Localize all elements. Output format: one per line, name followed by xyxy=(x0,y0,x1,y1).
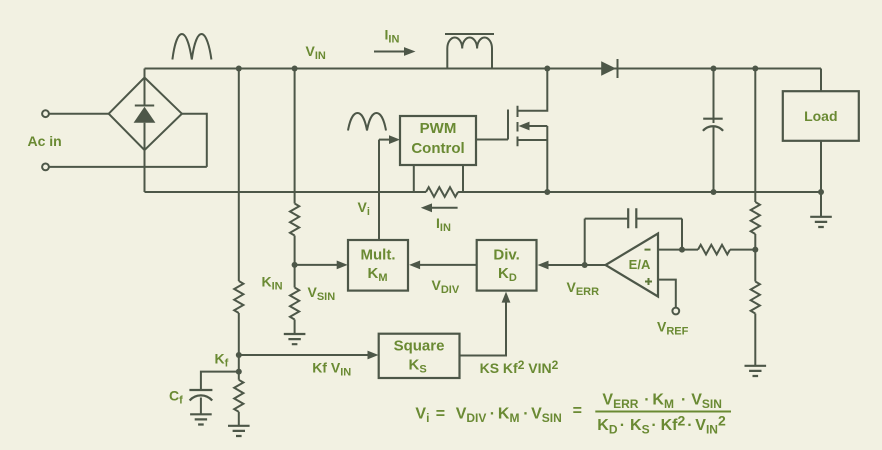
MOSFET channel segments xyxy=(517,106,519,146)
MOSFET gate bar xyxy=(507,110,509,140)
arrow KfVIN into Square xyxy=(368,351,379,360)
output capacitor lead top xyxy=(713,69,715,124)
junction dot divider tap xyxy=(752,247,758,253)
wire Kf divider upper xyxy=(238,69,240,282)
svg-text:·: · xyxy=(681,391,686,408)
wire bottom return rail right segment xyxy=(458,191,821,193)
svg-text:=: = xyxy=(573,403,582,420)
arrow VERR into Div box xyxy=(538,261,549,270)
output capacitor lead bottom xyxy=(713,127,715,192)
resistor input to divider tap xyxy=(698,245,730,255)
wire feedback right horizontal xyxy=(636,218,682,220)
wire VSIN to Mult xyxy=(295,264,337,266)
wire bridge diode anode lead xyxy=(144,123,146,149)
junction dot VSIN tap xyxy=(292,262,298,268)
boost inductor L coil xyxy=(447,37,492,48)
bridge diode triangle xyxy=(134,107,156,123)
junction dot Cf branch xyxy=(236,369,242,375)
terminal AC top xyxy=(42,110,49,117)
svg-text:·: · xyxy=(523,406,528,423)
sine symbol at PWM xyxy=(348,113,386,131)
capacitor Cf ground stub xyxy=(200,398,202,415)
Mult KM box xyxy=(348,240,408,291)
resistor KIN lower xyxy=(290,288,299,320)
junction dot rail / MOSFET drain xyxy=(544,66,550,72)
PWM Control box xyxy=(400,116,476,165)
feedback capacitor plates xyxy=(628,208,636,228)
wire feedback left horizontal xyxy=(585,218,629,220)
wire output ground stub xyxy=(820,192,822,216)
wire ac bottom lead xyxy=(49,166,207,168)
wire bridge top vertex to top rail xyxy=(144,69,146,79)
ground output xyxy=(810,217,832,227)
wire resistor to divider tap xyxy=(730,249,755,251)
terminal AC bottom xyxy=(42,164,49,171)
svg-text:Mult.: Mult. xyxy=(361,247,396,264)
Load box xyxy=(783,91,859,141)
svg-text:PWM: PWM xyxy=(420,120,457,137)
current sense resistor xyxy=(426,187,458,197)
wire MOSFET source to bottom rail xyxy=(546,126,548,192)
wire Kf to Square xyxy=(239,354,369,356)
wire top rail VIN xyxy=(145,68,822,70)
wire Square output to Div input xyxy=(460,302,507,356)
resistor feedback divider upper xyxy=(751,202,760,234)
wire Vi vertical xyxy=(378,140,380,240)
boost inductor L leads xyxy=(447,49,492,69)
wire bridge right vertex to ac return xyxy=(182,114,207,167)
arrow Vi into PWM xyxy=(379,139,390,141)
wire divider lower to ground xyxy=(754,314,756,366)
junction dot cap / bottom rail xyxy=(711,189,717,195)
output capacitor top plate xyxy=(703,118,723,120)
wire bridge bottom vertex to bottom rail xyxy=(144,150,146,193)
wire KIN lower to ground xyxy=(294,320,296,334)
output capacitor curved plate xyxy=(703,126,723,131)
resistor Kf upper xyxy=(234,281,243,313)
svg-text:Control: Control xyxy=(411,140,464,157)
wire bottom return rail left segment xyxy=(145,191,427,193)
wire load bottom lead xyxy=(820,141,822,192)
op-amp E/A triangle xyxy=(606,234,659,297)
svg-text:·: · xyxy=(687,417,692,434)
svg-text:Load: Load xyxy=(804,108,837,124)
wire KIN tap xyxy=(294,236,296,288)
formula fraction bar xyxy=(595,411,731,413)
ground Kf divider xyxy=(228,426,250,436)
MOSFET gate lead xyxy=(476,139,508,141)
boost diode cathode bar xyxy=(617,59,619,78)
wire divider to tap xyxy=(754,234,756,282)
wire op-amp noninverting input xyxy=(658,280,676,308)
wire feedback right vertical xyxy=(681,219,683,250)
wire KIN divider upper xyxy=(294,69,296,204)
bridge rectifier diamond xyxy=(109,78,182,151)
junction dot load / bottom rail xyxy=(818,189,824,195)
PWM sense stub left xyxy=(413,165,415,192)
wire feedback divider upper xyxy=(754,69,756,203)
svg-text:E/A: E/A xyxy=(629,257,651,272)
wire Cf branch horizontal xyxy=(201,372,239,390)
op-amp minus sign xyxy=(645,249,651,251)
arrow into Div bottom xyxy=(502,292,511,303)
Square KS box xyxy=(379,334,460,378)
resistor feedback divider lower xyxy=(751,282,760,314)
wire feedback left vertical xyxy=(584,219,586,265)
resistor KIN upper xyxy=(290,204,299,236)
svg-text:·: · xyxy=(644,391,649,408)
junction dot rail / KIN divider xyxy=(292,66,298,72)
Div KD box xyxy=(477,240,537,291)
ground Cf xyxy=(190,414,212,424)
terminal VREF xyxy=(672,308,679,315)
wire op-amp output xyxy=(548,264,606,266)
junction dot output / feedback xyxy=(582,262,588,268)
junction dot rail / Kf divider xyxy=(236,66,242,72)
capacitor Cf top plate xyxy=(189,389,212,391)
svg-text:Square: Square xyxy=(394,338,445,355)
rectified sine symbol xyxy=(172,34,211,60)
capacitor Cf curved plate xyxy=(190,395,213,400)
svg-text:·: · xyxy=(490,406,495,423)
wire Kf node xyxy=(238,313,240,380)
svg-text:·: · xyxy=(620,417,625,434)
boost inductor L core bar xyxy=(445,33,494,35)
svg-text:Div.: Div. xyxy=(493,247,519,264)
op-amp plus sign xyxy=(645,278,652,285)
wire Div to Mult xyxy=(419,264,477,266)
junction dot Kf node xyxy=(236,352,242,358)
arrow VDIV into Mult xyxy=(409,261,420,270)
svg-text:·: · xyxy=(651,417,656,434)
MOSFET source stub xyxy=(518,139,548,141)
MOSFET body arrow xyxy=(519,122,530,131)
junction dot feedback / inverting input xyxy=(679,247,685,253)
svg-text:=: = xyxy=(436,406,445,423)
svg-text:Ac in: Ac in xyxy=(28,133,62,149)
resistor Kf lower xyxy=(234,380,243,412)
wire ac top lead xyxy=(49,113,109,115)
arrow VSIN into Mult xyxy=(337,261,348,270)
boost diode triangle xyxy=(601,61,616,76)
ground feedback divider xyxy=(745,366,767,376)
junction dot rail / feedback divider xyxy=(752,66,758,72)
bridge diode cathode bar xyxy=(135,105,154,107)
MOSFET drain stub xyxy=(518,69,548,111)
wire op-amp inverting input xyxy=(658,249,698,251)
ground KIN divider xyxy=(284,334,306,344)
junction dot source / bottom rail xyxy=(544,189,550,195)
arrow IIN sense xyxy=(431,207,458,209)
junction dot rail / output cap xyxy=(711,66,717,72)
wire Kf lower to ground xyxy=(238,412,240,426)
arrow IIN direction xyxy=(374,51,405,53)
wire load top lead xyxy=(820,69,822,92)
wire bridge diode cathode lead xyxy=(144,79,146,106)
PWM sense stub right xyxy=(462,165,464,192)
